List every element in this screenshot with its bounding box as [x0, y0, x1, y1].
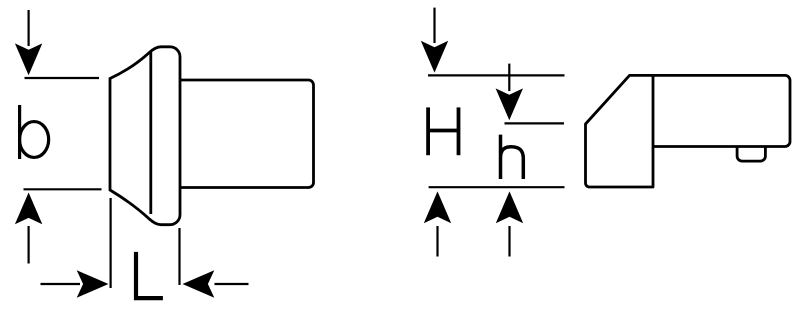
dimension b: top arrow (pointing down) [28, 10, 30, 46]
head holder body (chamfered block) [586, 75, 654, 187]
label h [501, 135, 524, 179]
dimension h: arrow (pointing down) [508, 64, 510, 91]
dimension L: right arrow (pointing left) [215, 283, 249, 285]
tool body (horizontal shaft) [653, 75, 790, 146]
retaining tab under body [737, 147, 765, 162]
dimension b: bottom arrow (pointing up) [28, 226, 30, 264]
label b [20, 105, 49, 159]
label L [136, 252, 163, 298]
dimension L: left extension line [109, 198, 111, 288]
dimension h: top line [505, 122, 565, 124]
dimension L: left arrow (pointing right) [41, 283, 81, 285]
dimension b: bottom extension line [24, 188, 102, 190]
dimension H: top line [428, 74, 565, 76]
dimension h: bottom arrow (pointing up) [508, 226, 510, 257]
flange rim inner edge line [149, 51, 152, 214]
dimension L: right extension line [178, 228, 180, 285]
dimension H: bottom arrow (pointing up) [436, 226, 438, 257]
label H [428, 107, 458, 155]
shared bottom dimension line [429, 186, 565, 188]
dimension b: top extension line [25, 77, 100, 79]
dimension H: top arrow (pointing down) [433, 8, 435, 43]
flange (conical collar) outline [110, 47, 180, 225]
shaft (cylindrical body) of insert [181, 80, 314, 188]
